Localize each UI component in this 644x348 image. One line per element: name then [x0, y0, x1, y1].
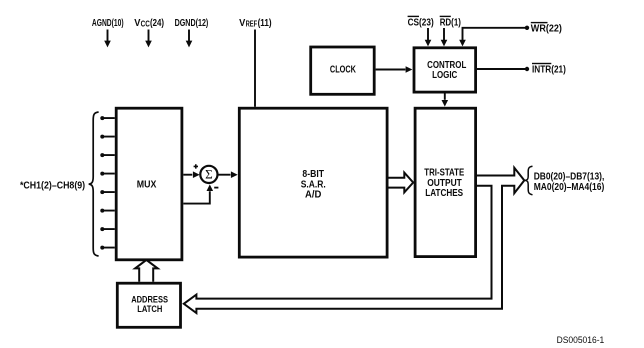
mux box: [116, 108, 182, 260]
svg-text:INTR(21): INTR(21): [532, 65, 566, 76]
control logic box U-CTRL: [414, 48, 476, 92]
wire VREF to A/D box: [254, 30, 256, 107]
svg-text:(11): (11): [258, 18, 272, 29]
hollow arrow address latch to MUX: [135, 260, 158, 282]
svg-text:CS(23): CS(23): [408, 18, 434, 29]
svg-text:CC: CC: [141, 20, 150, 29]
svg-text:A/D: A/D: [305, 190, 321, 201]
wire WR to control logic: [459, 26, 529, 47]
svg-text:DB0(20)–DB7(13),: DB0(20)–DB7(13),: [534, 171, 605, 182]
A/D converter box: [239, 108, 387, 257]
mux input wires with dots: [100, 116, 115, 250]
svg-text:REF: REF: [246, 20, 258, 29]
svg-text:(24): (24): [150, 18, 164, 29]
plus sign: [194, 164, 198, 168]
summing junction output wire to A/D: [218, 171, 238, 178]
wire CS arrow: [425, 28, 432, 46]
svg-text:LATCHES: LATCHES: [425, 188, 463, 199]
brace for CH inputs: [89, 112, 99, 256]
wire AGND arrow: [104, 30, 111, 48]
clock box: [311, 47, 375, 94]
svg-text:LATCH: LATCH: [137, 304, 162, 315]
pin label RD(1) with overline: [440, 16, 461, 29]
summing junction circle: [200, 166, 217, 183]
svg-text:AGND(10): AGND(10): [92, 18, 124, 29]
svg-text:CLOCK: CLOCK: [330, 64, 357, 75]
svg-text:MUX: MUX: [137, 180, 157, 191]
minus sign: [214, 187, 218, 189]
svg-text:Σ: Σ: [205, 168, 213, 182]
svg-text:RD(1): RD(1): [440, 18, 461, 29]
svg-text:LOGIC: LOGIC: [432, 70, 457, 81]
svg-text:DGND(12): DGND(12): [175, 18, 209, 29]
hollow bus: latches output arrow + feedback to address latch: [184, 168, 525, 313]
pin label WR(22) with overline: [531, 22, 562, 34]
wire clock to control logic: [376, 66, 413, 73]
wire DGND arrow: [186, 30, 193, 48]
hollow bus arrow A/D to latches: [389, 173, 414, 193]
tri-state output latches box: [415, 108, 476, 256]
wire control logic to tri-state latches: [442, 94, 449, 107]
pin label CS(23) with overline: [408, 16, 434, 29]
feedback wire from MUX to summing junction: [183, 184, 213, 203]
pin label INTR(21) with overline: [532, 63, 566, 76]
summing junction input wire: [183, 171, 199, 178]
svg-text:S.A.R.: S.A.R.: [301, 179, 326, 190]
svg-text:WR(22): WR(22): [531, 23, 562, 34]
pin label VCC(24): [134, 18, 164, 29]
svg-text:MA0(20)–MA4(16): MA0(20)–MA4(16): [534, 182, 605, 193]
wire VCC arrow: [145, 30, 152, 48]
brace for output bus labels: [525, 166, 533, 195]
address latch box: [117, 283, 180, 327]
svg-text:DS005016-1: DS005016-1: [557, 335, 605, 346]
wire RD arrow: [441, 28, 448, 46]
pin label VREF(11): [239, 18, 272, 29]
svg-text:*CH1(2)–CH8(9): *CH1(2)–CH8(9): [20, 181, 85, 192]
wire INTR output: [477, 67, 529, 71]
